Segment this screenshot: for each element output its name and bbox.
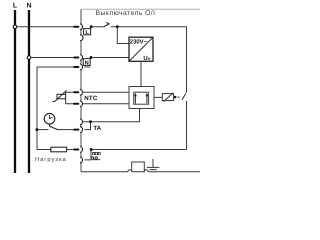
- svg-text:TA: TA: [93, 125, 101, 132]
- node dot at TA: [89, 120, 92, 123]
- arrow up right: [146, 95, 148, 103]
- wire resistor to heater pin: [67, 149, 74, 151]
- terminal L socket arc 2: [80, 35, 83, 41]
- pin N top: [74, 57, 78, 59]
- wire N tap to plug pin: [31, 57, 74, 59]
- wire N second pole from left: [37, 66, 74, 68]
- heater bracket: [85, 150, 92, 160]
- control unit A1 outer box: [129, 87, 154, 109]
- load resistor R1: [51, 147, 67, 152]
- terminal L label box: [84, 29, 91, 35]
- wire logic box to relay coil: [154, 96, 162, 98]
- svg-text:L: L: [85, 30, 89, 36]
- node dot at N terminal: [90, 56, 93, 59]
- terminal TA socket arc 2: [80, 127, 83, 133]
- vertical neutral branch wire: [36, 67, 38, 150]
- heating element icon: [91, 152, 100, 159]
- terminal TA socket arc 1: [80, 119, 82, 125]
- wire dot to timer switch: [37, 129, 49, 131]
- mechanical link (dashed): [178, 96, 180, 98]
- terminal heater socket arc 2: [80, 157, 82, 163]
- wire branch to resistor: [37, 149, 51, 151]
- terminal N socket arc 1: [80, 55, 83, 61]
- time switch KT1 clock symbol: [44, 113, 55, 124]
- terminal N socket arc 2: [80, 64, 82, 70]
- pin N bottom: [74, 66, 78, 68]
- wire down to PSU input: [117, 27, 129, 44]
- svg-text:Нагрузка: Нагрузка: [35, 157, 67, 163]
- node dot at L terminal: [90, 25, 93, 28]
- pin TA bottom: [74, 129, 78, 131]
- relay K1 coil: [162, 94, 173, 101]
- node: L tap circle: [13, 25, 17, 29]
- terminal heater socket arc 1: [80, 147, 82, 153]
- thermistor wires to NTC plug: [66, 92, 74, 95]
- pin heater: [74, 149, 78, 151]
- pin L: [74, 26, 78, 28]
- wire NTC top to logic box: [83, 91, 129, 93]
- wire PSU output down: [140, 61, 142, 86]
- ground: [147, 159, 160, 170]
- svg-text:Выключатель О/I: Выключатель О/I: [96, 10, 156, 17]
- wire bottom run to heater terminal: [91, 149, 186, 151]
- node dot after switch: [116, 25, 119, 28]
- wire L tap to plug pin: [17, 26, 74, 28]
- control unit A1 inner box: [134, 92, 149, 104]
- switch S1 (O/I) blade: [103, 24, 109, 27]
- terminal TA bracket: [83, 122, 91, 130]
- terminal N label box: [83, 59, 90, 66]
- controller box top edge: [81, 8, 200, 10]
- wire TA to logic box bottom: [91, 109, 140, 122]
- pin NTC top: [74, 91, 78, 93]
- arrow up left: [134, 95, 136, 103]
- thermistor RT1 (NTC sensor): [57, 94, 66, 99]
- svg-text:NTC: NTC: [84, 95, 98, 102]
- wire switch to top-right corner: [111, 26, 187, 28]
- svg-text:230V~: 230V~: [130, 38, 148, 45]
- node dot at heater terminal: [90, 148, 93, 151]
- wire timer switch to TA pin: [58, 129, 74, 131]
- wire contact to bottom: [186, 101, 188, 150]
- wire N terminal to PSU input: [91, 57, 129, 59]
- terminal NTC socket arc 1: [80, 89, 83, 95]
- relay K1 plug pin: [174, 96, 176, 98]
- N tap circle: [27, 56, 31, 60]
- wire L terminal to main switch: [91, 26, 103, 28]
- svg-text:N: N: [85, 60, 89, 66]
- right feed wire down: [186, 27, 188, 93]
- L bus wire: [14, 10, 16, 173]
- N bus wire: [28, 10, 30, 173]
- chassis bottom line with earth clamp humps: [81, 170, 200, 172]
- power supply U1 box 230V~/Uн: [129, 37, 153, 61]
- terminal NTC socket arc 2: [80, 101, 82, 107]
- node dot on neutral branch: [36, 128, 39, 131]
- svg-text:N: N: [26, 3, 31, 10]
- terminal L socket arc 1: [80, 24, 82, 30]
- wire NTC bottom to logic box: [83, 103, 129, 105]
- relay K1 contact blade: [182, 93, 186, 100]
- pin NTC bottom: [74, 103, 78, 105]
- earth clamp box: [132, 162, 145, 171]
- time switch KT1 contact blade: [49, 124, 51, 126]
- controller box left edge: [80, 9, 82, 171]
- svg-text:L: L: [13, 3, 18, 10]
